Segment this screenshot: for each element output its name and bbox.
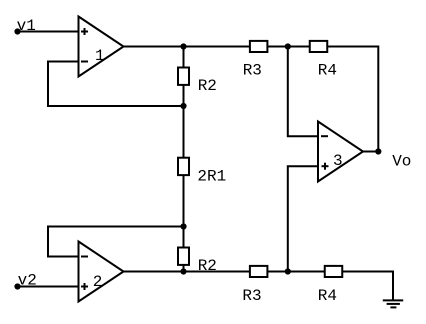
svg-text:1: 1 bbox=[95, 47, 105, 65]
svg-text:R2: R2 bbox=[198, 77, 217, 95]
resistor 2R1 bbox=[178, 158, 189, 175]
op-amp U3 minus input sign bbox=[321, 135, 328, 137]
node Vo output dot bbox=[375, 148, 381, 154]
op-amp U1 minus input sign bbox=[81, 61, 88, 63]
wire U1 feedback (minus input to node A) bbox=[48, 62, 184, 107]
ground bbox=[383, 300, 403, 307]
wire node E down to U3 minus input bbox=[288, 47, 318, 137]
svg-text:Vo: Vo bbox=[392, 153, 411, 171]
wire v1 input bbox=[18, 31, 79, 33]
node E junction (top divider tap) bbox=[285, 43, 291, 49]
node F junction (bottom divider tap) bbox=[285, 268, 291, 274]
svg-text:2: 2 bbox=[93, 273, 103, 291]
wire v2 input bbox=[18, 286, 79, 288]
node v2 terminal dot bbox=[14, 283, 20, 289]
op-amp U3 triangle bbox=[318, 122, 363, 182]
node C junction (U2 feedback tap) bbox=[180, 223, 186, 229]
resistor R3 (top) bbox=[250, 41, 268, 52]
op-amp U2 plus input sign bbox=[81, 283, 88, 290]
resistor R4 (top) bbox=[310, 41, 328, 52]
resistor R4 (bottom) bbox=[325, 266, 343, 277]
wire U3 output bbox=[363, 151, 378, 153]
node B junction (U1 feedback tap) bbox=[180, 103, 186, 109]
wire resistor chain column bbox=[183, 47, 185, 272]
op-amp U2 minus input sign bbox=[81, 256, 88, 258]
op-amp U1 triangle bbox=[79, 17, 124, 77]
svg-text:v1: v1 bbox=[17, 17, 36, 35]
node D junction (U2 output) bbox=[180, 268, 186, 274]
op-amp U1 plus input sign bbox=[81, 28, 88, 35]
svg-text:R3: R3 bbox=[242, 287, 261, 305]
resistor R2 (top) bbox=[178, 68, 189, 85]
resistor R3 (bottom) bbox=[250, 266, 268, 277]
svg-text:3: 3 bbox=[333, 152, 343, 170]
op-amp U3 plus input sign bbox=[322, 163, 329, 170]
wire U2 output row to ground corner bbox=[124, 272, 394, 301]
svg-text:2R1: 2R1 bbox=[197, 167, 226, 185]
resistor R2 (bottom) bbox=[178, 248, 189, 265]
svg-text:R4: R4 bbox=[318, 287, 337, 305]
node A junction (U1 output) bbox=[180, 43, 186, 49]
svg-text:R3: R3 bbox=[243, 62, 262, 80]
wire U1 output row to R4 and down to U3 output bbox=[124, 47, 379, 152]
wire U3 plus input down to node F bbox=[288, 166, 318, 271]
wire U2 feedback (minus input to node C) bbox=[48, 227, 184, 257]
svg-text:v2: v2 bbox=[18, 272, 37, 290]
op-amp U2 triangle bbox=[79, 242, 124, 302]
node v1 terminal dot bbox=[14, 28, 20, 34]
svg-text:R4: R4 bbox=[318, 62, 337, 80]
